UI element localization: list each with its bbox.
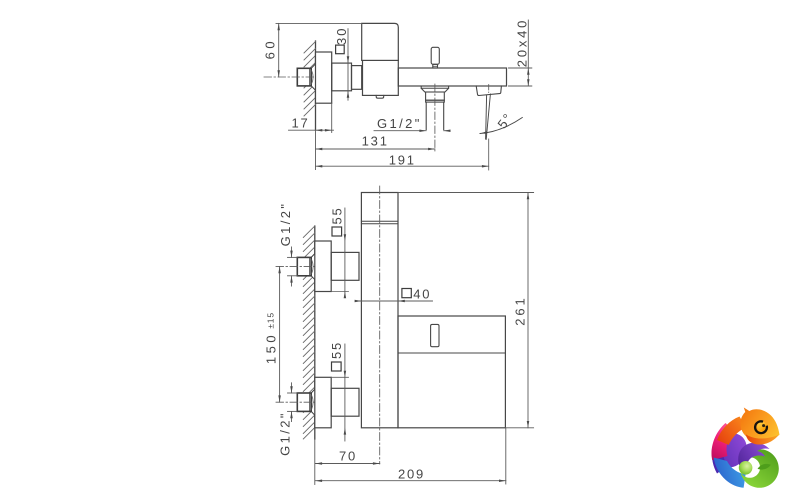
svg-text:261: 261 [513,295,528,325]
chameleon inner purple body [713,433,747,467]
svg-text:17: 17 [291,116,309,131]
top valve body (bottom view) [331,252,359,280]
svg-text:55: 55 [330,206,345,224]
vertical column (bottom view) [361,193,398,428]
svg-text:40: 40 [413,286,431,301]
svg-text:70: 70 [339,448,357,463]
dim 17 (top view) [289,103,334,132]
svg-text:G1/2": G1/2" [278,202,293,247]
bottom nub (top view) [376,95,384,98]
inlet centerline (top view) [264,76,317,78]
block right extension (bottom view) [505,428,507,484]
svg-text:G1/2": G1/2" [278,411,293,456]
chameleon green tail ring [740,449,779,488]
handle block (top view) [362,23,399,60]
svg-text:150: 150 [263,332,278,364]
chameleon red band [717,417,746,446]
tail tip purple swirl [738,443,769,473]
spout outlet (top view) [476,86,501,96]
svg-text:60: 60 [263,38,278,59]
column centerline (bottom view) [379,186,381,464]
holder centerline (top view) [434,84,436,151]
top escutcheon plate (bottom view) [315,241,331,292]
bottom valve body (bottom view) [331,388,359,416]
top inlet centerline (bottom view) [276,265,317,267]
spout block (bottom view) [398,316,505,428]
svg-text:G1/2": G1/2" [377,116,422,131]
spout bar 20x40 (top view) [398,68,506,86]
dim G1/2 top (bottom view) [288,247,298,286]
chameleon pink band [712,423,735,460]
green leaf in notch [758,464,771,470]
spout center extension line (top view) [488,139,490,170]
bottom escutcheon plate (bottom view) [315,377,331,428]
dim G1/2 bottom (bottom view) [288,383,298,422]
chameleon green disc [739,461,753,475]
inlet fitting square (top view) [297,64,315,90]
mixer body block (top view) [363,60,399,95]
chameleon jaw [746,434,779,444]
body step A □30 (top view) [332,63,352,91]
dim square30 (top view) [347,29,349,101]
wall hatching (bottom view) [303,226,315,439]
wall (top view) [315,41,317,130]
body step B (top view) [352,66,362,90]
svg-text:5°: 5° [494,110,516,132]
svg-text:191: 191 [389,152,416,167]
top inlet square (bottom view) [297,254,315,280]
handshower holder collar (top view) [421,86,448,92]
column joint lines (bottom view) [361,221,398,224]
bottom inlet centerline (bottom view) [276,401,317,403]
wall (bottom view) [314,226,316,439]
dim square55 top (bottom view) [331,208,348,297]
dim 20x40 (top view) [509,20,532,86]
dim 70 (bottom view) [315,463,379,465]
chameleon indigo sliver [712,448,728,473]
svg-text:55: 55 [329,341,344,359]
chameleon eye [757,422,767,432]
chameleon head [740,408,779,442]
handshower holder ring (top view) [426,100,445,102]
handle slot (bottom view) [431,324,439,346]
bottom inlet square (bottom view) [297,389,315,415]
wall hatching (top view) [304,42,316,117]
svg-text:±15: ±15 [265,312,275,329]
5 deg arc (top view) [480,118,522,134]
wall extension line (top view) [315,130,317,169]
water jet lines 5 deg (top view) [486,94,491,139]
chameleon blue band [714,458,746,488]
svg-text:20x40: 20x40 [515,18,530,67]
spout block inner line (bottom view) [398,352,505,354]
dim square40 (bottom view) [356,300,433,302]
dim 60 (top view) [276,23,362,77]
svg-text:131: 131 [362,134,389,149]
dim 131 (top view) [316,148,435,150]
svg-text:30: 30 [334,27,349,45]
dim 191 (top view) [316,165,489,167]
wall extension (bottom view) [314,439,316,485]
spout centerline (top view) [488,85,490,93]
dim G1/2 holder (top view) [374,130,449,132]
handshower holder cylinder (top view) [426,92,445,100]
wall escutcheon plate (top view) [316,52,332,103]
dim 150 +-15 (bottom view) [279,266,281,402]
handshower tube (top view) [426,102,444,129]
dim square55 bottom (bottom view) [331,344,348,441]
svg-text:209: 209 [398,467,425,482]
dim 261 (bottom view) [398,193,534,428]
diverter knob (top view) [431,47,439,68]
dim 209 (bottom view) [315,480,506,482]
